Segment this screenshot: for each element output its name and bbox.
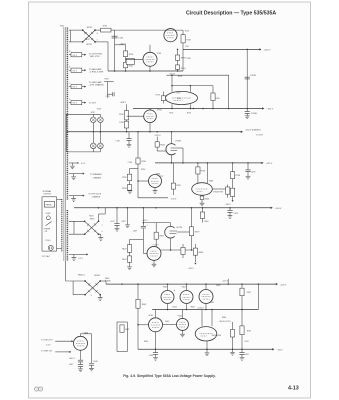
svg-text:V735: V735 — [97, 109, 101, 111]
wire bridge2 left tie — [73, 221, 75, 234]
svg-text:+100 V: +100 V — [142, 220, 149, 222]
ground R663 — [201, 200, 203, 203]
power entry loop wires — [41, 197, 43, 251]
svg-text:R647: R647 — [247, 292, 251, 294]
svg-text:NORMAL: NORMAL — [43, 190, 52, 193]
svg-text:SR642: SR642 — [94, 275, 100, 277]
wire tap 6.3 V mid — [69, 162, 78, 164]
vacuum tube V677A — [147, 246, 161, 260]
svg-text:R760: R760 — [141, 169, 145, 171]
svg-text:−150 V: −150 V — [266, 109, 274, 111]
wire right rail — [241, 296, 243, 326]
resistor R649 — [155, 142, 159, 147]
resistor R745 right — [212, 86, 214, 93]
svg-text:& TRIG & SWP: & TRIG & SWP — [90, 72, 104, 74]
svg-text:R752: R752 — [178, 76, 182, 78]
wire heater tap — [69, 86, 71, 88]
wire lamp box bottom — [92, 149, 94, 152]
wire section A top rail — [115, 29, 183, 31]
svg-text:R745: R745 — [186, 58, 190, 60]
wire -150 reference line — [167, 74, 229, 76]
grid box C741 — [126, 58, 134, 64]
wire lamp box top — [66, 113, 100, 115]
wire V645 link — [163, 323, 177, 325]
copyright marks — [35, 387, 43, 391]
svg-text:R745: R745 — [215, 98, 219, 100]
resistor R768 — [171, 183, 175, 189]
svg-text:R666: R666 — [222, 317, 226, 319]
ground 6.3 tap — [73, 254, 75, 257]
wire tap arrow — [82, 69, 85, 71]
wire V747B anode side — [178, 147, 184, 149]
svg-text:+350 V (UNREG): +350 V (UNREG) — [245, 129, 261, 131]
wire input arrow 1 — [55, 340, 71, 342]
svg-text:−150 V: −150 V — [276, 350, 283, 352]
svg-text:+225 V: +225 V — [266, 163, 273, 165]
svg-text:TO CRT HTRS: TO CRT HTRS — [89, 53, 103, 55]
svg-text:+350 V: +350 V — [120, 102, 127, 104]
wire V677B side — [177, 231, 192, 233]
svg-text:TO SWP CKT: TO SWP CKT — [41, 351, 53, 353]
resistor R756 — [197, 163, 199, 167]
wire winding to bridge3 bottom — [72, 281, 74, 295]
wire V737 plate stems — [171, 86, 173, 92]
svg-text:R663: R663 — [205, 198, 209, 200]
svg-text:C675: C675 — [234, 213, 239, 215]
resistor R762 — [129, 169, 131, 175]
resistor R674 — [129, 252, 131, 256]
svg-text:B: B — [69, 67, 70, 69]
svg-text:C749A: C749A — [251, 112, 258, 115]
svg-text:R762: R762 — [122, 177, 127, 179]
svg-text:C764: C764 — [128, 162, 132, 164]
svg-text:+225 V: +225 V — [222, 280, 229, 282]
wire bridge2 negative — [99, 233, 101, 235]
capacitor C740 — [112, 36, 118, 38]
svg-text:V754: V754 — [157, 53, 161, 55]
svg-text:R644: R644 — [173, 307, 177, 309]
wire -150 V stub arrow — [194, 263, 196, 265]
wire V754 grid — [126, 58, 144, 60]
svg-text:TO VERT AMP: TO VERT AMP — [89, 81, 103, 84]
svg-text:−150 V: −150 V — [225, 204, 232, 206]
capacitor C641 — [89, 364, 94, 366]
svg-text:V643: V643 — [163, 287, 167, 289]
wire V645 plate — [182, 310, 184, 319]
capacitor C662 below bus — [241, 349, 243, 352]
wire R762 top link — [130, 168, 139, 170]
svg-text:B: B — [97, 33, 98, 35]
svg-text:R763: R763 — [122, 188, 127, 190]
wire node bar — [143, 222, 170, 224]
wire tap arrow — [82, 102, 85, 104]
bus +350 V unregulated — [67, 131, 241, 133]
rectifier bridge SR670 — [84, 220, 100, 235]
ground R763 — [129, 189, 131, 191]
wire rectifier to node — [95, 29, 101, 31]
svg-text:+225 V: +225 V — [154, 135, 161, 137]
svg-text:V640: V640 — [84, 332, 88, 334]
wire V677B plate — [170, 223, 172, 227]
resistor R747 — [181, 35, 185, 43]
wire bridge3 negative ground — [99, 295, 101, 298]
svg-text:R766 R767: R766 R767 — [213, 191, 223, 193]
wire winding to bridge2 bottom — [69, 233, 85, 235]
svg-text:C677: C677 — [110, 221, 114, 223]
svg-text:−150 V: −150 V — [170, 199, 177, 201]
resistor R680 — [182, 244, 184, 247]
svg-text:C749B: C749B — [250, 75, 257, 77]
svg-text:Fig. 4-9. Simplified Type 535A: Fig. 4-9. Simplified Type 535A Low-Volta… — [123, 374, 215, 378]
svg-text:C710: C710 — [106, 96, 110, 98]
wire inner rail — [125, 45, 127, 71]
wire section A right rail — [182, 30, 184, 71]
bus +100 V — [74, 207, 271, 209]
wire primary bottom — [57, 248, 62, 250]
wire V677B cathode — [170, 238, 172, 250]
wire V666 stems — [201, 310, 203, 327]
svg-text:C640: C640 — [93, 361, 97, 363]
svg-text:R768: R768 — [176, 185, 180, 187]
wire V634 plate — [155, 310, 157, 318]
svg-text:R677: R677 — [122, 221, 126, 223]
resistor R742 — [123, 62, 127, 68]
wire input arrow 2 — [55, 351, 69, 353]
pilot lamp B737 — [91, 143, 97, 149]
wire primary top — [57, 199, 62, 201]
svg-text:R657: R657 — [247, 330, 251, 332]
svg-text:C645: C645 — [165, 321, 169, 323]
resistor R738 — [124, 121, 128, 128]
resistor R763 — [127, 185, 131, 191]
wire V737 cathode stems — [171, 104, 173, 108]
capacitor C677 — [116, 208, 118, 224]
svg-text:R758: R758 — [236, 175, 241, 177]
resistor R748 — [175, 55, 179, 60]
heater winding tap box 6.3 V — [71, 101, 82, 105]
svg-text:Circuit Description — Type 535: Circuit Description — Type 535/535A — [186, 11, 276, 17]
svg-text:R732: R732 — [103, 25, 107, 27]
capacitor C749A — [246, 109, 248, 112]
wire lamp to bus — [92, 123, 94, 143]
svg-text:THERM: THERM — [45, 205, 52, 207]
vacuum tube V752 — [164, 29, 177, 42]
svg-text:R736: R736 — [119, 114, 124, 116]
transformer T601 primary winding — [61, 199, 63, 252]
resistor R750 — [175, 65, 179, 70]
heater winding tap box 6.3 V — [71, 85, 82, 89]
wire section A bottom rail — [108, 70, 183, 72]
svg-text:R637: R637 — [125, 329, 129, 331]
wire tube cathodes to +100 bus — [167, 304, 169, 310]
svg-text:PLUG: PLUG — [46, 240, 51, 242]
svg-text:R667: R667 — [159, 236, 164, 238]
svg-text:TO PREHEAT: TO PREHEAT — [90, 173, 103, 176]
wire section A left rail — [114, 30, 116, 71]
wire V634 cathode — [155, 332, 157, 350]
svg-text:R672: R672 — [122, 248, 127, 250]
wire right tie of lower buses — [257, 284, 259, 309]
ground preheat tap — [73, 174, 75, 177]
svg-text:R656 R658: R656 R658 — [212, 335, 221, 337]
wire left rail — [137, 284, 139, 299]
svg-text:C652: C652 — [210, 302, 214, 304]
svg-text:R647: R647 — [216, 285, 220, 287]
wire bridge2 output jog — [98, 214, 100, 221]
svg-text:R679: R679 — [195, 232, 200, 234]
svg-text:C657: C657 — [244, 341, 248, 343]
resistor R637 — [120, 325, 124, 332]
svg-text:R742: R742 — [129, 65, 134, 67]
svg-text:+225 V: +225 V — [280, 284, 287, 286]
wire V664 plate stem left — [197, 174, 199, 183]
vacuum tube V754 — [143, 52, 157, 66]
resistor R672 — [129, 240, 131, 245]
svg-text:117 V AC: 117 V AC — [42, 255, 51, 258]
svg-text:V784: V784 — [157, 110, 161, 112]
bus +500 V — [183, 48, 260, 50]
resistor R736 — [124, 111, 128, 120]
svg-text:C634: C634 — [149, 355, 153, 357]
svg-text:R709: R709 — [105, 78, 109, 80]
svg-text:V677B: V677B — [176, 227, 182, 229]
wire V640 cathode — [80, 350, 82, 360]
wire jog to C710 — [104, 81, 114, 83]
svg-text:R684: R684 — [198, 252, 203, 254]
wire rail riser — [171, 75, 173, 85]
vacuum tube V684 — [149, 175, 162, 188]
vacuum tube V645 — [177, 318, 189, 330]
svg-text:R757: R757 — [159, 176, 163, 178]
svg-text:R735: R735 — [156, 94, 160, 96]
wire V640 plate — [80, 334, 82, 337]
svg-text:R748: R748 — [181, 58, 186, 60]
wire +225 V stub — [227, 279, 229, 284]
svg-text:+100 V: +100 V — [275, 208, 282, 210]
resistor R732 — [101, 28, 111, 32]
resistor R663 — [201, 194, 203, 197]
ground R674 — [129, 262, 131, 266]
vacuum tube V643 — [167, 284, 169, 290]
svg-text:R634: R634 — [144, 341, 148, 343]
svg-text:C647: C647 — [69, 364, 73, 366]
svg-text:V747B: V747B — [175, 140, 181, 142]
wire grid V684 — [138, 180, 149, 182]
power switch SW601 — [46, 222, 52, 226]
svg-text:TO HTR CKTS: TO HTR CKTS — [88, 194, 101, 196]
svg-text:C736: C736 — [115, 141, 119, 143]
svg-text:V752: V752 — [185, 30, 189, 32]
wire V754 cathode — [149, 66, 151, 71]
svg-text:+500 V: +500 V — [264, 50, 272, 52]
svg-text:6080: 6080 — [177, 98, 181, 100]
plug P601 — [48, 245, 53, 250]
wire bridge1 left tie — [70, 30, 72, 42]
ground stub R677 — [127, 208, 129, 225]
svg-text:CHASSIS: CHASSIS — [92, 196, 101, 199]
vacuum tube V784 — [144, 110, 157, 123]
svg-text:R750: R750 — [181, 68, 186, 70]
vacuum tube V640 — [74, 336, 88, 350]
oval tube V664 — [192, 183, 213, 196]
resistor R740 — [123, 51, 127, 57]
capacitor C749B marks — [246, 49, 248, 108]
svg-text:R740: R740 — [129, 54, 134, 56]
svg-text:C747: C747 — [185, 46, 189, 48]
vacuum tube V662 — [205, 284, 207, 289]
wire V747B plate — [171, 132, 173, 144]
resistor R735 left of oval — [162, 92, 164, 96]
bus +100 V lower — [152, 309, 258, 311]
svg-text:R764: R764 — [141, 161, 146, 163]
capacitor C736 — [128, 132, 130, 139]
svg-text:V861 V762: V861 V762 — [90, 56, 101, 58]
resistor R647 top — [241, 284, 243, 288]
wire V754 plate to top — [149, 45, 151, 53]
oval tube V737 6080 — [166, 91, 198, 104]
capacitor C710 — [112, 92, 114, 96]
wire R649 chain — [156, 137, 158, 142]
thermal cutout box — [44, 202, 54, 208]
svg-text:R756: R756 — [201, 171, 206, 173]
svg-text:C667: C667 — [133, 231, 137, 233]
wire series tube top rail — [172, 85, 214, 87]
svg-text:V645: V645 — [178, 316, 182, 318]
pilot lamp B736 — [98, 117, 104, 123]
svg-text:C678: C678 — [251, 172, 256, 174]
wire tap screened — [69, 195, 83, 197]
resistor R764 — [136, 158, 140, 164]
resistor R641 — [136, 299, 140, 308]
wire V784 cathode — [149, 123, 151, 132]
wire to V747B — [156, 147, 158, 151]
wire R764 rail — [137, 132, 139, 158]
wire lamp stems upper — [92, 115, 94, 118]
wire V784 plate — [149, 109, 151, 110]
svg-text:R754: R754 — [187, 113, 191, 115]
svg-text:SR640-1: SR640-1 — [78, 275, 85, 277]
resistor R654 — [232, 322, 234, 330]
svg-text:TO TRIG CKT: TO TRIG CKT — [41, 339, 53, 341]
wire right drop — [228, 75, 230, 108]
ground screened tap — [73, 196, 75, 199]
capacitor C647-2 — [80, 362, 82, 364]
rectifier bridge SR732 — [82, 29, 96, 43]
transformer T601 core — [63, 27, 65, 261]
wire rectifier bottom to bus — [95, 41, 108, 43]
resistor R766 — [232, 179, 234, 189]
wire heater tap — [69, 54, 71, 56]
svg-text:TO CRT: TO CRT — [256, 135, 264, 137]
wire tap arrow — [82, 54, 85, 56]
half tube V747B — [166, 144, 178, 155]
fuse F601 — [47, 216, 51, 220]
svg-text:SR670: SR670 — [90, 219, 95, 221]
svg-text:4-13: 4-13 — [288, 385, 299, 391]
wire V664 plate stem right — [206, 163, 208, 183]
svg-text:V737: V737 — [176, 93, 180, 95]
resistor R679 — [191, 208, 193, 227]
svg-text:R641: R641 — [142, 304, 147, 306]
ground V640 cathode — [80, 367, 82, 369]
half tube V677B — [165, 226, 177, 238]
bus +225 V lower — [106, 283, 276, 285]
wire -150 V drop arrow — [232, 197, 234, 201]
svg-text:C647-1: C647-1 — [69, 358, 75, 360]
heater winding tap box 6.3 V — [71, 68, 82, 72]
wire V747B cathode — [171, 155, 173, 163]
wire R748 rail — [177, 49, 179, 71]
wire R764 down — [137, 164, 139, 198]
wire winding to bridge3 top — [65, 261, 67, 281]
ground bottom mid — [206, 349, 208, 352]
pilot lamp B738 — [98, 143, 104, 149]
svg-text:CHASSIS: CHASSIS — [93, 176, 102, 179]
capacitor C634 — [155, 349, 157, 352]
transformer T601 lower secondary winding — [66, 210, 68, 261]
wire cathode rail — [161, 249, 195, 251]
wire R732 to section A — [111, 29, 115, 31]
svg-text:& HV CHASSIS: & HV CHASSIS — [90, 84, 105, 87]
ground V684 cathode — [154, 188, 156, 191]
svg-text:−150 V: −150 V — [188, 268, 195, 270]
svg-text:OUTPUT: OUTPUT — [43, 194, 52, 196]
feedback divider box — [116, 322, 118, 352]
svg-text:R690: R690 — [204, 221, 208, 223]
svg-text:C737: C737 — [86, 39, 90, 41]
wire 6.3 tap bottom — [69, 253, 73, 255]
svg-text:+350 V (DCPL): +350 V (DCPL) — [218, 321, 231, 323]
resistor R690 — [202, 208, 204, 212]
ground V645 — [182, 330, 184, 334]
wire tap preheat — [69, 173, 72, 175]
wire V666 cathode — [206, 341, 208, 349]
wire V677 grid chain — [142, 208, 144, 226]
svg-text:TO CRT: TO CRT — [89, 102, 97, 104]
resistor R667 — [155, 223, 157, 233]
svg-text:TO 6AU5 AMP: TO 6AU5 AMP — [89, 68, 103, 71]
ground V677A — [153, 260, 155, 264]
wire R672 link — [130, 239, 144, 241]
transformer T601 secondary winding — [66, 28, 68, 201]
resistor R657 — [240, 326, 244, 335]
wire heater tap — [69, 102, 71, 104]
wire R736 rail — [126, 104, 128, 132]
capacitor C647-1 — [78, 360, 83, 362]
resistor R684 — [194, 244, 196, 248]
wire winding to rectifier bottom rail — [69, 41, 83, 43]
wire winding to rectifier top rail — [69, 29, 83, 31]
ground bridge2 — [98, 238, 103, 241]
svg-text:R747: R747 — [186, 40, 191, 42]
resistor R758 — [232, 163, 234, 172]
wire heater tap — [69, 69, 71, 71]
wire tap arrow — [82, 86, 85, 88]
wire V634 grid — [138, 324, 149, 326]
svg-text:B737: B737 — [91, 112, 95, 114]
bus -150 V upper — [133, 108, 263, 110]
svg-text:V634: V634 — [148, 315, 152, 317]
capacitor C678 — [247, 163, 249, 170]
svg-text:FUSE: FUSE — [46, 213, 52, 215]
bus +225 V mid — [155, 162, 262, 164]
svg-text:R752: R752 — [169, 113, 173, 115]
vacuum tube V634 — [149, 318, 163, 332]
bus -150 V bottom — [138, 348, 273, 350]
oval tube V666 — [195, 327, 217, 341]
wire -150 V lower rail — [138, 197, 168, 199]
wire winding to bridge2 top — [69, 220, 85, 222]
